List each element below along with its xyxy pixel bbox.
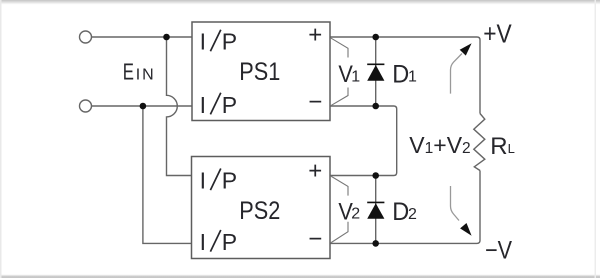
svg-text:P: P — [222, 29, 237, 55]
svg-text:+: + — [308, 22, 322, 49]
svg-text:I: I — [200, 92, 206, 118]
svg-text:P: P — [222, 168, 237, 194]
svg-text:I: I — [200, 29, 206, 55]
svg-text:PS1: PS1 — [239, 58, 280, 86]
svg-text:−V: −V — [485, 236, 512, 264]
svg-text:V1+V2: V1+V2 — [409, 132, 470, 158]
svg-text:−: − — [308, 88, 322, 115]
svg-text:+V: +V — [483, 18, 512, 48]
svg-text:−: − — [308, 226, 322, 253]
svg-text:PS2: PS2 — [239, 197, 280, 225]
svg-text:P: P — [222, 229, 237, 255]
svg-text:I: I — [200, 168, 206, 194]
svg-text:P: P — [222, 92, 237, 118]
svg-text:+: + — [308, 157, 322, 184]
svg-text:I: I — [200, 229, 206, 255]
